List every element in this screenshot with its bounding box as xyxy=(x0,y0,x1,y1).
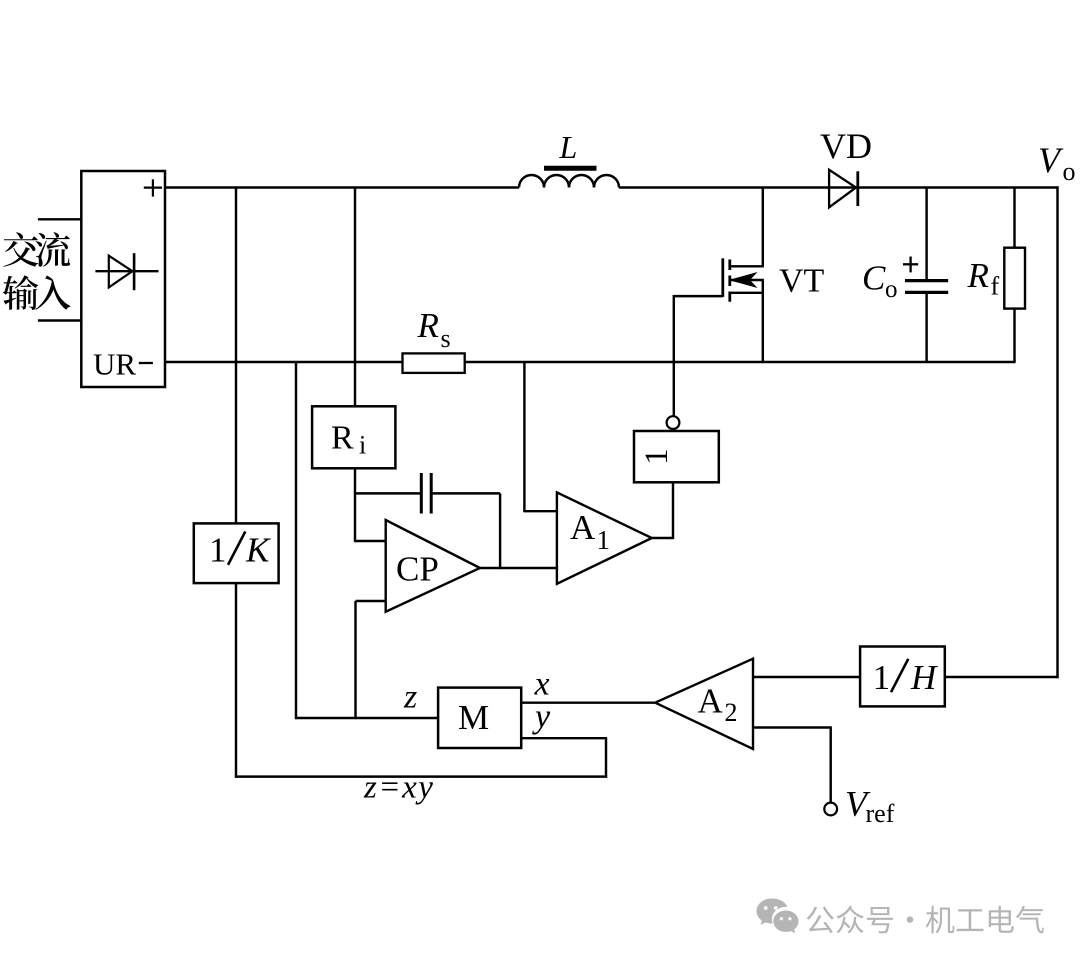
label AC input line2 输入 xyxy=(3,275,71,310)
capacitor Co plates xyxy=(905,281,948,293)
label UR plus terminal xyxy=(144,179,162,196)
resistor Ri box xyxy=(312,406,395,468)
svg-text:A: A xyxy=(570,508,596,547)
wire A1 input drop from bottom rail xyxy=(524,362,557,512)
wire z line into M xyxy=(295,717,438,719)
svg-text:z: z xyxy=(403,678,417,715)
terminal AC input upper stub xyxy=(38,218,81,220)
diode VD xyxy=(829,170,858,208)
label x xyxy=(534,665,550,702)
driver box 1 xyxy=(634,431,719,482)
svg-text:1: 1 xyxy=(209,530,227,569)
label VD xyxy=(820,126,872,166)
watermark text 公众号·机工电气 xyxy=(807,906,1044,934)
svg-text:ref: ref xyxy=(866,799,895,828)
svg-text:1: 1 xyxy=(873,658,891,697)
label AC input line1 交流 xyxy=(4,232,71,267)
svg-text:C: C xyxy=(862,259,886,298)
wire Rf branch lower xyxy=(1013,308,1015,363)
wire A2 output x line to M xyxy=(521,701,656,703)
label Vref xyxy=(845,784,895,829)
svg-text:y: y xyxy=(532,699,551,736)
wire capacitor feedback left segment xyxy=(355,492,420,494)
svg-text:M: M xyxy=(458,698,489,737)
label y xyxy=(532,699,551,736)
label Rs xyxy=(417,306,451,353)
transistor VT body lead with arrow xyxy=(731,274,764,287)
transistor VT channel dashed bar xyxy=(728,260,731,302)
svg-text:1: 1 xyxy=(597,525,611,555)
wire capacitor feedback right segment and drop to CP output xyxy=(433,493,501,569)
label Co plus xyxy=(903,257,918,273)
label z xyxy=(403,678,417,715)
resistor Rs box xyxy=(403,353,465,373)
label 1/K xyxy=(209,530,271,569)
label CP xyxy=(396,550,439,589)
wire 1/K input drop from top rail xyxy=(235,188,237,524)
driver circle terminal xyxy=(667,416,680,429)
svg-text:f: f xyxy=(991,271,1000,300)
svg-text:i: i xyxy=(359,430,366,459)
wire bottom rail xyxy=(165,361,1016,363)
wire 1/K output drop to feedback line xyxy=(235,583,237,778)
wire VT gate lead down to driver circle xyxy=(674,295,723,416)
terminal AC input lower stub xyxy=(38,319,81,321)
wire sense drop from bottom rail to z line xyxy=(295,362,297,719)
wire VT source vertical xyxy=(762,280,764,362)
svg-text:R: R xyxy=(417,306,439,345)
wire Co branch upper xyxy=(925,188,927,281)
wire top rail left segment (UR+ to inductor) xyxy=(165,186,519,188)
svg-text:s: s xyxy=(441,324,451,353)
svg-text:2: 2 xyxy=(725,698,738,727)
label UR xyxy=(93,347,136,382)
watermark wechat icon xyxy=(757,899,799,934)
svg-text:UR: UR xyxy=(93,347,136,382)
inductor L xyxy=(519,175,619,188)
label Co xyxy=(862,259,898,303)
svg-text:CP: CP xyxy=(396,550,439,589)
label L with underline xyxy=(544,129,597,168)
svg-text:V: V xyxy=(1038,140,1064,180)
diode inside UR xyxy=(95,253,158,290)
label Ri xyxy=(331,419,366,459)
wire top rail right segment (inductor to Vo corner) xyxy=(619,186,1059,188)
wire Ri bottom lead to CP upper input xyxy=(355,468,386,542)
label VT xyxy=(779,263,825,300)
rectifier UR box xyxy=(81,171,165,387)
svg-text:VD: VD xyxy=(820,126,872,166)
wire Vo right vertical drop to 1/H xyxy=(945,186,1059,678)
op-amp A2 triangle xyxy=(655,659,753,749)
transistor VT source lead xyxy=(731,292,764,294)
label 1/H xyxy=(873,658,938,697)
resistor Rf box xyxy=(1004,248,1025,309)
svg-text:H: H xyxy=(910,658,938,697)
wire Rf branch upper xyxy=(1013,188,1015,249)
transistor VT gate bar xyxy=(721,258,724,297)
wire z=xy bottom feedback line xyxy=(235,775,607,777)
wire Co branch lower xyxy=(925,292,927,362)
label z=xy xyxy=(363,770,434,806)
label Vo xyxy=(1038,140,1076,186)
op-amp A1 triangle xyxy=(557,492,652,583)
svg-text:L: L xyxy=(559,129,578,165)
svg-text:VT: VT xyxy=(779,263,825,300)
svg-text:K: K xyxy=(245,530,271,569)
wire M y input segment xyxy=(521,738,607,778)
label A2 xyxy=(698,682,738,728)
svg-text:A: A xyxy=(698,682,724,721)
wire VT drain vertical xyxy=(762,188,764,267)
multiplier M box xyxy=(438,688,521,748)
label UR minus terminal xyxy=(139,362,153,364)
wire CP lower input xyxy=(356,601,386,719)
divider 1/K box xyxy=(194,523,279,583)
svg-text:R: R xyxy=(967,256,989,295)
svg-text:o: o xyxy=(885,276,898,303)
wire A2 lower input to Vref xyxy=(753,728,832,803)
capacitor CP feedback plates xyxy=(421,473,431,514)
wire A2 upper input to 1/H xyxy=(753,676,861,678)
label M xyxy=(458,698,489,737)
svg-text:1: 1 xyxy=(639,448,675,465)
wire Ri input drop from top rail xyxy=(354,188,356,407)
wire A1 output up to driver box xyxy=(652,482,673,539)
svg-text:z=xy: z=xy xyxy=(363,770,434,806)
terminal Vref circle xyxy=(824,803,837,816)
svg-text:o: o xyxy=(1063,157,1076,186)
svg-text:x: x xyxy=(534,665,550,702)
divider 1/H box xyxy=(860,647,945,707)
svg-text:R: R xyxy=(331,419,354,456)
label A1 xyxy=(570,508,610,555)
wire CP output to A1 xyxy=(480,567,557,569)
label Rf xyxy=(967,256,1000,300)
op-amp CP triangle xyxy=(386,520,480,612)
transistor VT drain lead xyxy=(731,265,764,267)
